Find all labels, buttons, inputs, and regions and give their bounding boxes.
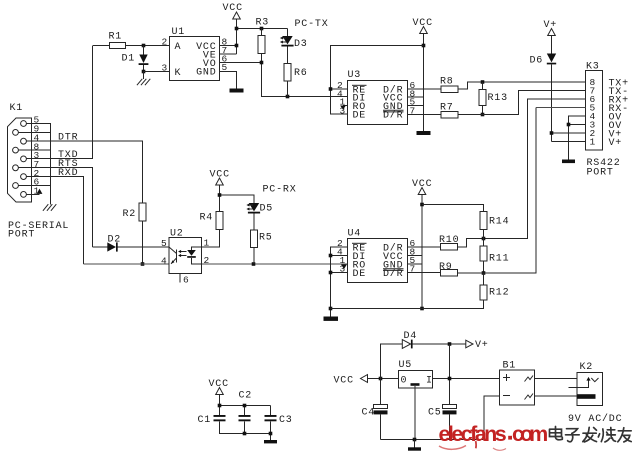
- junction OV pins: [567, 123, 571, 127]
- svg-text:I: I: [426, 376, 433, 387]
- svg-text:U4: U4: [348, 229, 362, 240]
- U3 pin1 no-connect arrow: [343, 105, 348, 107]
- svg-text:1: 1: [590, 137, 596, 148]
- svg-text:D1: D1: [122, 54, 136, 65]
- svg-text:PORT: PORT: [587, 168, 614, 179]
- junction R11/R12/R9: [482, 271, 486, 275]
- wire bottom supply ground rail: [381, 439, 485, 441]
- ground bar below U1: [230, 89, 244, 93]
- wire R5 to bottom rail: [253, 248, 255, 265]
- junction VO/R3: [260, 61, 264, 65]
- wire U3 pin6 through R8 to K3 pin8 TX+: [408, 82, 586, 89]
- svg-text:PC-RX: PC-RX: [263, 185, 297, 196]
- junction R1/D1: [142, 44, 146, 48]
- U2 phototransistor symbol: [169, 247, 177, 264]
- U2 internal LED: [192, 247, 202, 264]
- svg-text:D6: D6: [530, 56, 544, 67]
- junction R2 bottom: [141, 262, 145, 266]
- junction U5 gnd at rail: [413, 438, 417, 442]
- wire U1 GND pin5 to ground bar: [220, 72, 237, 89]
- svg-text:DTR: DTR: [58, 133, 78, 144]
- svg-text:C3: C3: [279, 415, 293, 426]
- svg-text:VCC: VCC: [223, 3, 243, 14]
- wire K1 unused pins 5,9,8,6 to chassis ground bus: [19, 124, 51, 205]
- svg-text:V+: V+: [609, 138, 623, 149]
- junction U4 pin3: [329, 271, 333, 275]
- wire VCC branch to R14 top: [422, 205, 484, 212]
- svg-text:3: 3: [162, 63, 168, 74]
- junction R10/R14/R11: [482, 237, 486, 241]
- svg-text:R4: R4: [200, 213, 214, 224]
- junction VCC/R14 branch: [420, 203, 424, 207]
- wire D4 to V+ arrow: [413, 343, 466, 345]
- junction R6 bottom: [286, 95, 290, 99]
- svg-text:U3: U3: [348, 70, 362, 81]
- wire B1 AC pins to K2: [535, 379, 592, 397]
- junction VCC/U3 enable branch: [422, 44, 426, 48]
- svg-text:elecfans: elecfans: [439, 422, 507, 446]
- wire R3 bottom / U1 VO net to U3 DI: [220, 29, 348, 97]
- svg-text:R5: R5: [259, 233, 273, 244]
- wire U5 input from B1 plus: [433, 378, 500, 380]
- wire R4 to U2 pin1: [202, 230, 220, 248]
- svg-text:C5: C5: [428, 408, 442, 419]
- junction VCC/R3 branch: [235, 27, 239, 31]
- svg-text:9V AC/DC: 9V AC/DC: [568, 413, 622, 425]
- node V+ port arrow: [466, 340, 473, 348]
- svg-text:R1: R1: [109, 32, 123, 43]
- junction R13 bottom: [481, 113, 485, 117]
- ground bar below U5: [414, 440, 416, 448]
- wire TXD to R1 to U1 pin A: [93, 45, 170, 47]
- svg-text:com: com: [512, 422, 547, 446]
- svg-text:2: 2: [162, 37, 168, 48]
- svg-text:R12: R12: [489, 288, 509, 299]
- svg-text:A: A: [175, 42, 182, 53]
- wire U5 ground pin to rail: [414, 386, 416, 440]
- svg-text:C4: C4: [362, 408, 376, 419]
- K2 sleeve contact bar: [577, 394, 596, 399]
- junction U3 pin2: [329, 87, 333, 91]
- junction U1 pin8: [235, 44, 239, 48]
- svg-text:R3: R3: [256, 18, 270, 29]
- ground bar below U4: [324, 317, 339, 321]
- watermark chinese characters: [550, 427, 632, 442]
- wire VCC rail to U1 pins 8,7 and R3/D3: [220, 19, 288, 54]
- svg-text:R6: R6: [294, 68, 308, 79]
- K1 pin1 stub and arrow: [27, 194, 40, 196]
- wire VCC rail over C1,C2,C3: [220, 395, 271, 416]
- wire U4 pin7 through R9 to K3 pin5 RX-: [408, 108, 537, 274]
- ground bar below K3: [562, 160, 575, 164]
- wire U2 pin6 stub: [179, 274, 181, 283]
- wire bottom ground rail: [331, 300, 484, 309]
- junction C1 top: [218, 404, 222, 408]
- svg-text:V+: V+: [475, 340, 489, 351]
- svg-text:R14: R14: [489, 217, 509, 228]
- wire C1,C2,C3 bottoms to ground: [220, 421, 271, 440]
- ground chassis symbol below D1: [137, 79, 150, 85]
- wire U4 RE,DI,DE tie-down to ground: [331, 247, 348, 317]
- svg-text:PORT: PORT: [8, 230, 35, 241]
- wire K3 pins 4,3 OV to ground: [569, 116, 586, 160]
- wire U1 pin K to D1: [144, 72, 170, 80]
- K1 pin circles: [21, 121, 27, 127]
- wire U4 pin6 through R10 to K3 pin6 RX+: [408, 99, 586, 247]
- junction U4 pin4: [329, 254, 333, 258]
- svg-text:K2: K2: [580, 362, 594, 373]
- svg-text:D4: D4: [404, 331, 418, 342]
- svg-text:R13: R13: [488, 93, 508, 104]
- wire bottom rail RXD to U2 pin4 and on to U4 RO: [84, 263, 348, 265]
- junction R3 top: [260, 27, 264, 31]
- svg-text:GND: GND: [196, 68, 216, 79]
- svg-text:4: 4: [161, 256, 167, 267]
- junction C2 top: [243, 404, 247, 408]
- svg-text:V+: V+: [544, 20, 558, 31]
- junction U5 input/C5: [448, 377, 452, 381]
- junction D1/U1 pin K: [142, 70, 146, 74]
- ground bar below U3: [417, 131, 431, 135]
- svg-text:D5: D5: [260, 204, 274, 215]
- junction R5 bottom: [252, 262, 256, 266]
- junction C2 bottom: [243, 432, 247, 436]
- wire VCC to U3 RE/DE pins: [331, 46, 424, 115]
- svg-text:D3: D3: [294, 39, 308, 50]
- svg-text:DE: DE: [353, 269, 367, 280]
- wire VCC to R4 and D5: [220, 185, 255, 212]
- svg-text:K1: K1: [10, 103, 24, 114]
- wire U3 pin7 through R7 to K3 pin7 TX-: [408, 91, 586, 115]
- wire VCC down past U3 pins to ground bar: [408, 34, 424, 132]
- svg-text:PC-TX: PC-TX: [295, 19, 329, 30]
- junction V+ pin2: [550, 131, 554, 135]
- svg-text:C2: C2: [239, 391, 253, 402]
- svg-text:C1: C1: [198, 415, 212, 426]
- junction R13 top: [481, 80, 485, 84]
- svg-text:DE: DE: [353, 111, 367, 122]
- wire D6 to K3 V+ pins 1,2: [552, 64, 586, 141]
- svg-text:U5: U5: [399, 360, 413, 371]
- svg-text:VCC: VCC: [334, 376, 354, 387]
- ground bar below C3: [264, 440, 277, 443]
- junction C4/D4/U5: [379, 377, 383, 381]
- junction VCC/R4/D5: [218, 193, 222, 197]
- svg-text:R11: R11: [489, 254, 509, 265]
- ground chassis symbol below K1: [43, 204, 56, 211]
- svg-text:RXD: RXD: [58, 168, 78, 179]
- svg-text:2: 2: [204, 255, 210, 266]
- K2 center pin symbol: [586, 377, 590, 381]
- junction C3 bottom: [269, 432, 273, 436]
- svg-text:D/R: D/R: [383, 110, 403, 122]
- svg-text:0: 0: [401, 376, 408, 387]
- svg-text:6: 6: [183, 275, 189, 286]
- U4 pin1 marker arrow: [341, 265, 347, 270]
- wire VCC down past U4 to bottom ground rail: [408, 195, 423, 309]
- svg-text:R2: R2: [123, 209, 137, 220]
- wire VCC port to U5 output: [368, 378, 399, 380]
- junction ground rail left: [329, 307, 333, 311]
- svg-text:D/R: D/R: [383, 268, 403, 280]
- junction U4 VCC net at rail: [420, 307, 424, 311]
- svg-text:K: K: [175, 68, 182, 79]
- svg-text:5: 5: [161, 238, 167, 249]
- wire B1 minus to ground rail: [484, 396, 500, 440]
- junction D4/C5 branch: [448, 342, 452, 346]
